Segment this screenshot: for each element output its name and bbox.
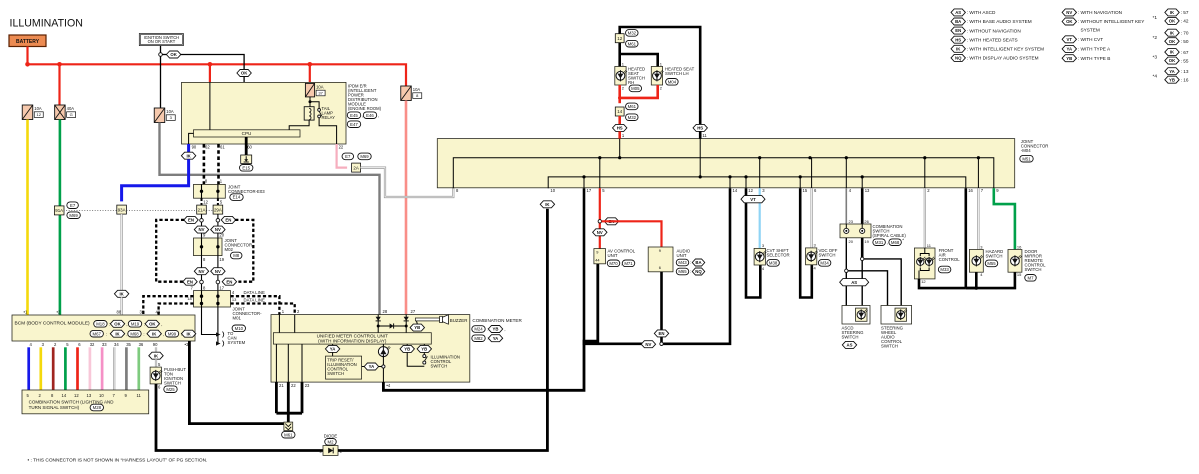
wire meter 23: [301, 382, 304, 413]
svg-text:YB: YB: [414, 325, 420, 330]
svg-text:NV: NV: [1066, 10, 1072, 15]
M04 internal drops: [619, 139, 621, 158]
svg-text:12: 12: [203, 200, 208, 205]
svg-text:NV: NV: [199, 269, 205, 274]
wire M02 down right: [217, 256, 219, 291]
wire BCM6 red: [76, 347, 79, 390]
option NV right bottom: [211, 268, 225, 275]
svg-text:39: 39: [140, 310, 145, 315]
svg-text:14: 14: [62, 393, 67, 398]
svg-text:36: 36: [139, 342, 144, 347]
connector 14: [615, 107, 624, 116]
svg-text:CONTROL: CONTROL: [939, 257, 961, 262]
option NV audio: [641, 341, 655, 348]
trip reset illumination control switch box: [326, 356, 362, 379]
svg-text:SYSTEM: SYSTEM: [1081, 27, 1100, 32]
connector M69: [358, 153, 371, 160]
connector M32 c: [626, 114, 639, 121]
svg-text:NV: NV: [215, 269, 221, 274]
svg-text:,: ,: [163, 331, 164, 336]
svg-text:DIODE: DIODE: [324, 433, 338, 438]
dotted harness line: [64, 209, 117, 211]
wire RH red down: [618, 85, 621, 103]
svg-text:M34: M34: [820, 261, 829, 266]
fuse 10A 37: [305, 83, 314, 97]
svg-text:EN: EN: [225, 218, 231, 223]
svg-text:M7: M7: [1028, 275, 1035, 280]
wire to IPDM: [209, 64, 211, 83]
svg-text:10A: 10A: [166, 109, 174, 114]
diode cross right: [390, 323, 394, 328]
svg-text:32: 32: [90, 342, 95, 347]
door mirror remote control switch M7: [1008, 250, 1022, 273]
wire push-button to diode bus: [156, 384, 323, 451]
connector E7: [342, 153, 354, 160]
option HS right: [693, 124, 707, 131]
svg-text:: WITH NAVIGATION: : WITH NAVIGATION: [1078, 10, 1122, 15]
node branch M01 right: [216, 280, 220, 284]
svg-text:M61: M61: [628, 104, 637, 109]
svg-text:12: 12: [921, 279, 926, 284]
svg-text:YB: YB: [421, 347, 427, 352]
junction battery bus: [25, 62, 30, 67]
svg-text:,: ,: [504, 327, 505, 332]
wire spiral 19 down: [861, 238, 864, 259]
option EN av: [604, 218, 618, 225]
legend option YA: [1062, 45, 1076, 52]
svg-text:21: 21: [279, 383, 284, 388]
svg-text:17: 17: [587, 188, 592, 193]
svg-text:RELAY: RELAY: [322, 115, 336, 120]
connector M65: [676, 268, 689, 275]
CVT shift selector M38: [754, 248, 765, 265]
legend option IK: [951, 45, 965, 52]
svg-text:10A: 10A: [34, 106, 42, 111]
svg-text:OK: OK: [170, 52, 177, 57]
svg-text:OK: OK: [1066, 19, 1073, 24]
wire diode cross: [378, 325, 406, 327]
combination switch lighting turn signal: [22, 390, 149, 414]
wire front air return: [919, 279, 966, 288]
wire cpu left step: [189, 133, 194, 144]
svg-text:16: 16: [968, 188, 973, 193]
svg-text:M68: M68: [130, 331, 139, 336]
svg-text:: 67: : 67: [1181, 50, 1189, 55]
svg-text:CPU: CPU: [242, 131, 252, 136]
wire pink pin22: [337, 144, 348, 168]
svg-text:29A: 29A: [214, 207, 222, 212]
connector M25: [164, 386, 177, 393]
svg-text:M69: M69: [360, 154, 369, 159]
wire 14 to HS: [618, 116, 621, 124]
svg-text:YA: YA: [369, 364, 375, 369]
wire white 2A to M04 pin8: [361, 168, 454, 197]
connector M61 label: [282, 431, 295, 438]
svg-text:M8: M8: [233, 253, 240, 258]
legend option NV: [1062, 9, 1076, 16]
node ignition branch: [159, 53, 163, 57]
svg-text:9: 9: [659, 248, 661, 253]
wire bar to pin23: [301, 344, 303, 382]
svg-text:17: 17: [219, 286, 224, 291]
M04 upper bus: [453, 158, 994, 189]
wire lamp down: [382, 355, 384, 382]
svg-text:YA: YA: [1169, 69, 1175, 74]
svg-text:10A: 10A: [413, 87, 421, 92]
connector M38: [767, 260, 780, 267]
svg-text:M05: M05: [631, 86, 640, 91]
wire IPDM feed internal: [209, 82, 211, 129]
svg-text:: WITHOUT NAVIGATION: : WITHOUT NAVIGATION: [967, 28, 1021, 33]
svg-text:M32: M32: [628, 31, 637, 36]
wire pin12 loop: [746, 188, 760, 297]
wire fuse37 to relay: [309, 97, 311, 107]
option NQ: [692, 268, 705, 275]
wire bar to pin21: [275, 344, 277, 382]
wire green BCM pin2: [59, 120, 62, 316]
wire bar to YA: [332, 344, 334, 356]
svg-text:91A: 91A: [55, 208, 63, 213]
svg-text:,: ,: [621, 261, 622, 266]
connector 93A: [117, 205, 127, 214]
wire red power bus: [28, 64, 407, 86]
hazard switch M55: [969, 250, 983, 273]
wire 12 to RH: [618, 43, 621, 67]
svg-text:OK: OK: [1169, 39, 1176, 44]
option YA M82: [488, 335, 502, 342]
front air control: [914, 248, 935, 279]
illumination control switch meter: [407, 344, 424, 366]
svg-text:10: 10: [550, 188, 555, 193]
wire pin2 white: [924, 188, 926, 248]
svg-text:: 70: : 70: [1181, 30, 1189, 35]
svg-text:EN: EN: [226, 279, 232, 284]
connector E45: [347, 112, 360, 119]
svg-text:40A: 40A: [67, 106, 75, 111]
connector M70: [607, 260, 620, 267]
svg-text:12: 12: [37, 112, 42, 117]
svg-text:M02: M02: [225, 247, 234, 252]
legend ref OK: 50: [1165, 38, 1179, 45]
wire meter join: [276, 412, 302, 415]
wire blue pin90: [187, 144, 190, 152]
option EN left top: [184, 216, 198, 223]
wire spiral branch steering R: [862, 259, 901, 306]
connector M71: [622, 260, 635, 267]
wire diode to M04 pin10: [338, 209, 547, 451]
svg-text:HS: HS: [955, 37, 961, 42]
data line E03 to 29A: [217, 198, 219, 206]
wire meter dot4 to AV44: [383, 264, 597, 391]
wire blue to 93A: [122, 159, 189, 201]
option AS label: [842, 341, 856, 348]
data line M01 to meter1: [231, 296, 280, 314]
svg-text:2A: 2A: [353, 165, 358, 170]
wire coil to CPU: [289, 120, 309, 130]
svg-text:33: 33: [102, 342, 107, 347]
svg-text:(ENGINE ROOM): (ENGINE ROOM): [348, 106, 382, 111]
legend option OK: [1062, 18, 1076, 25]
option NV left top: [194, 226, 208, 233]
svg-text:E7: E7: [345, 154, 351, 159]
connector 29A: [213, 205, 223, 214]
svg-text:13: 13: [232, 297, 237, 302]
junction ground bus hazard: [975, 286, 978, 289]
option EN audio: [654, 330, 668, 337]
svg-text:E45: E45: [350, 113, 358, 118]
wire relay contact feed: [310, 102, 319, 109]
wire yellow BCM pin1: [26, 120, 29, 316]
detour dashed right: [235, 220, 253, 282]
svg-text:E47: E47: [350, 122, 358, 127]
svg-text:COMBINATION METER: COMBINATION METER: [472, 318, 522, 323]
svg-text:15: 15: [803, 188, 808, 193]
wire spiral 19 down b: [861, 259, 863, 306]
svg-text:: WITH INTELLIGENT KEY SYSTEM: : WITH INTELLIGENT KEY SYSTEM: [967, 47, 1044, 52]
svg-text:E15: E15: [242, 165, 250, 170]
wire door mirror return: [966, 272, 1015, 288]
svg-text:AS: AS: [851, 280, 857, 285]
legend ref YB: 16: [1165, 76, 1179, 83]
svg-text:11: 11: [702, 133, 707, 138]
svg-text:CONNECTOR-E03: CONNECTOR-E03: [228, 189, 265, 194]
svg-text:SWITCH: SWITCH: [842, 335, 859, 340]
wire BCM90 white: [155, 347, 157, 352]
svg-text:*: *: [902, 238, 904, 243]
svg-text:M70: M70: [609, 261, 618, 266]
svg-text:M65: M65: [678, 269, 687, 274]
wire battery feed: [26, 47, 28, 65]
svg-text:YA: YA: [493, 336, 499, 341]
svg-text:SWITCH: SWITCH: [327, 371, 344, 376]
svg-text:M04: M04: [668, 79, 677, 84]
wire return to pin14: [663, 188, 730, 344]
svg-text:ON OR START: ON OR START: [148, 39, 176, 44]
wire M02 down left: [201, 256, 203, 291]
svg-text::: :: [690, 260, 691, 265]
svg-text:90: 90: [192, 145, 197, 150]
data line M01 to BCM40: [159, 304, 194, 316]
svg-text:UNIT: UNIT: [608, 253, 618, 258]
wire pin6 white: [810, 188, 812, 248]
svg-text:OK: OK: [1169, 58, 1176, 63]
connector M7: [1025, 275, 1037, 282]
connector M68b: [128, 330, 141, 337]
svg-text:: WITH HEATED SEATS: : WITH HEATED SEATS: [967, 37, 1018, 42]
svg-text:M61: M61: [628, 41, 637, 46]
diode pin27: [404, 317, 409, 321]
wire meter pin28 int: [377, 315, 379, 333]
option EN right bottom: [222, 278, 236, 285]
connector M51: [1020, 155, 1033, 162]
option YA trip2: [364, 363, 378, 370]
legend ref IK: 70: [1165, 29, 1179, 36]
svg-text:E46: E46: [366, 113, 374, 118]
wire white to BCM 88: [120, 214, 122, 290]
connector E7 b: [67, 202, 79, 209]
legend ref YA: 13: [1165, 68, 1179, 75]
svg-text:12: 12: [748, 188, 753, 193]
svg-text:M69: M69: [69, 213, 78, 218]
svg-text:NQ: NQ: [695, 269, 702, 274]
option OK cpu: [237, 70, 251, 77]
wire to fuse 37: [309, 64, 311, 83]
svg-text:,: ,: [378, 113, 379, 118]
wire trip to lamp: [362, 366, 382, 368]
connector M33: [938, 266, 951, 273]
svg-text:M68: M68: [891, 240, 900, 245]
option NV right top: [211, 226, 225, 233]
wire BCM3 yellow: [39, 347, 42, 390]
option EN left bottom: [183, 278, 197, 285]
legend ref IK: 57: [1165, 9, 1179, 16]
connector M04 sw: [666, 79, 679, 86]
svg-text:BCM (BODY CONTROL MODULE): BCM (BODY CONTROL MODULE): [15, 321, 91, 327]
connector E14: [230, 194, 243, 201]
option YB ics2: [417, 345, 431, 352]
svg-text:E7: E7: [70, 203, 76, 208]
svg-text:DATA LINE: DATA LINE: [244, 298, 265, 303]
svg-text:EN: EN: [188, 218, 194, 223]
option NV left bottom: [194, 268, 208, 275]
diode pin28: [376, 317, 381, 321]
legend option NQ: [951, 54, 965, 61]
svg-text:M67: M67: [93, 331, 102, 336]
option VT: [741, 196, 765, 203]
wire BCM4 blue: [27, 347, 30, 390]
tail lamp relay contact: [318, 109, 321, 112]
connector M61 c: [626, 103, 639, 110]
svg-text:: WITH ASCD: : WITH ASCD: [967, 10, 996, 15]
wire 21A down: [201, 214, 203, 238]
svg-text:G: G: [70, 112, 73, 117]
svg-text:SWITCH: SWITCH: [1025, 267, 1042, 272]
svg-text:M99: M99: [168, 331, 177, 336]
connector M34: [818, 260, 831, 267]
connector M61 a: [626, 40, 639, 47]
heated seat switch RH M05: [615, 67, 626, 86]
svg-text:: 55: : 55: [1181, 58, 1189, 63]
svg-text:,: ,: [161, 322, 162, 327]
svg-text:M2: M2: [328, 439, 335, 444]
joint connector E03: [194, 184, 226, 198]
option IK bcm90: [149, 352, 163, 359]
joint connector M04 box: [437, 139, 1014, 188]
legend option HS: [951, 36, 965, 43]
svg-text:M55: M55: [987, 261, 996, 266]
option YB ics1: [400, 345, 414, 352]
svg-text:,: ,: [887, 240, 888, 245]
junction relay feed: [309, 100, 312, 103]
svg-text:22: 22: [291, 383, 296, 388]
svg-text:SWITCH: SWITCH: [431, 364, 448, 369]
svg-text:M10: M10: [235, 326, 244, 331]
connector E47: [347, 121, 360, 128]
wire HS to M04 pin1: [618, 131, 621, 138]
svg-text:: 50: : 50: [1181, 39, 1189, 44]
option AS spiral: [840, 279, 869, 286]
data line 62: [203, 144, 206, 184]
svg-text:M01: M01: [233, 316, 242, 321]
option YA trip: [325, 345, 339, 352]
wire OK branch: [162, 54, 167, 56]
node branch 29A: [216, 219, 220, 223]
svg-text:: WITH TYPE B: : WITH TYPE B: [1078, 56, 1110, 61]
detour dashed left: [156, 220, 184, 282]
heated seat switch LH M04b: [651, 67, 662, 86]
svg-text:M28: M28: [93, 405, 102, 410]
connector 12: [615, 34, 624, 43]
legend option YB: [1062, 55, 1076, 62]
node branch 21A: [200, 219, 204, 223]
wire pin15 loop: [800, 188, 812, 297]
svg-text:M82: M82: [474, 336, 483, 341]
svg-text:13: 13: [865, 188, 870, 193]
legend option EN: [951, 27, 965, 34]
svg-text:EN: EN: [659, 331, 665, 336]
ASCD steering switch: [842, 306, 870, 325]
svg-text:TURN SIGNAL SWITCH): TURN SIGNAL SWITCH): [29, 405, 80, 410]
svg-text:YA: YA: [330, 347, 336, 352]
svg-text:•4: •4: [386, 383, 390, 388]
svg-text::: :: [690, 269, 691, 274]
svg-text:6: 6: [659, 265, 661, 270]
svg-text:14: 14: [617, 109, 622, 114]
svg-text:E14: E14: [233, 195, 241, 200]
svg-text:SYSTEM: SYSTEM: [228, 340, 246, 345]
battery: [9, 35, 46, 47]
wire BCM5 green: [64, 347, 67, 390]
wire pin7 white: [977, 188, 979, 249]
connector M28: [90, 404, 103, 411]
option HS left: [613, 124, 627, 131]
option EN right top: [221, 216, 235, 223]
svg-text:YB: YB: [493, 327, 499, 332]
wires to CAN system: [202, 307, 217, 335]
svg-text:: 16: : 16: [1181, 77, 1189, 82]
fuse 10A 3: [154, 108, 165, 123]
svg-text:SWITCH: SWITCH: [164, 380, 181, 385]
svg-text:13: 13: [87, 393, 92, 398]
fuse 40A G: [55, 105, 66, 120]
connector E15: [240, 165, 253, 172]
option IK M67: [110, 330, 124, 337]
svg-text:VT: VT: [750, 197, 756, 202]
svg-text:OK: OK: [149, 321, 156, 326]
svg-text:21A: 21A: [198, 207, 206, 212]
svg-text:AS: AS: [955, 10, 961, 15]
connector M05: [629, 85, 642, 92]
svg-text:: WITH BASE AUDIO SYSTEM: : WITH BASE AUDIO SYSTEM: [967, 19, 1032, 24]
svg-text:20: 20: [219, 233, 224, 238]
ground E15: [241, 155, 252, 164]
svg-text:YB: YB: [1169, 77, 1175, 82]
svg-text:*4: *4: [1153, 74, 1158, 80]
wire BCM36 lightgreen: [137, 347, 140, 390]
wire pin3 skyblue: [759, 188, 761, 248]
combination switch spiral cable: [840, 224, 871, 238]
data line M01 to meter2: [231, 304, 295, 315]
svg-text:BA: BA: [955, 19, 961, 24]
option IK pin10: [540, 201, 554, 208]
fuse 10A 8: [401, 86, 412, 101]
wire meter pin27 int: [405, 315, 407, 333]
legend option BA: [951, 18, 965, 25]
wire pin9 green: [994, 188, 1015, 249]
connector M61: [284, 422, 293, 430]
connector M69 b: [67, 212, 80, 219]
wire BCM dot3 black: [189, 341, 284, 424]
